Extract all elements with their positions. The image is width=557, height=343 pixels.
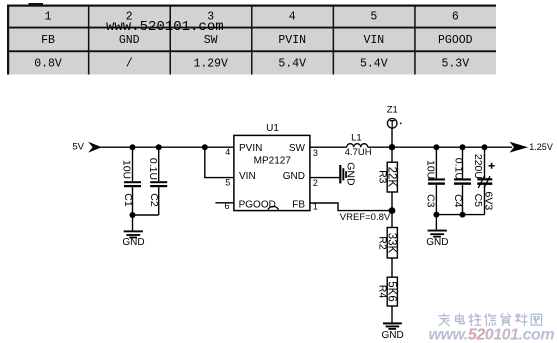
svg-text:220U: 220U bbox=[472, 154, 484, 179]
wire PGOOD stub (pin 6, floating) bbox=[215, 201, 234, 211]
svg-text:4: 4 bbox=[225, 147, 230, 157]
node 5V input port bbox=[72, 141, 101, 152]
svg-text:0.1U: 0.1U bbox=[147, 158, 159, 180]
node junction C1 on rail bbox=[130, 144, 136, 150]
ground GND under R4 bbox=[381, 322, 403, 341]
pin table bbox=[7, 5, 496, 75]
wire C1-C2 bottom link bbox=[133, 214, 159, 216]
svg-text:/: / bbox=[126, 58, 133, 71]
svg-text:PGOOD: PGOOD bbox=[239, 200, 276, 211]
svg-text:MP2127: MP2127 bbox=[254, 156, 292, 167]
inductor L1 4.7UH bbox=[345, 132, 372, 158]
svg-text:C2: C2 bbox=[148, 193, 160, 207]
capacitor C1 10U bbox=[121, 147, 141, 215]
wire input rail 5V to PVIN bbox=[96, 146, 234, 148]
svg-text:10U: 10U bbox=[425, 160, 437, 179]
svg-text:5: 5 bbox=[225, 177, 230, 187]
svg-text:GND: GND bbox=[122, 237, 144, 248]
node junction C3 on rail bbox=[433, 144, 439, 150]
svg-text:1.25V: 1.25V bbox=[529, 142, 553, 152]
svg-text:VIN: VIN bbox=[363, 34, 384, 47]
capacitor C3 10U bbox=[425, 147, 445, 214]
svg-text:0.8V: 0.8V bbox=[34, 58, 62, 71]
ground GND under C3 bbox=[426, 215, 448, 248]
node junction C1 bottom bbox=[130, 212, 136, 218]
svg-text:5V: 5V bbox=[72, 141, 84, 152]
svg-text:L1: L1 bbox=[351, 132, 362, 143]
wire GND pin 2 bbox=[310, 178, 339, 189]
wire SW pin 3 to L1 bbox=[310, 147, 347, 158]
svg-text:0.1U: 0.1U bbox=[452, 158, 464, 180]
svg-text:3: 3 bbox=[313, 148, 318, 158]
resistor R3 22K bbox=[377, 147, 398, 210]
wire C3-C4-C5 bottom link bbox=[436, 214, 484, 216]
node junction C4 bottom bbox=[460, 212, 466, 218]
svg-text:5: 5 bbox=[370, 11, 377, 24]
capacitor C2 0.1U bbox=[147, 147, 167, 215]
svg-text:2: 2 bbox=[313, 178, 318, 188]
node junction C2 on rail bbox=[156, 144, 162, 150]
svg-text:5K6: 5K6 bbox=[386, 281, 398, 301]
svg-text:FB: FB bbox=[41, 34, 55, 47]
resistor R4 5K6 bbox=[377, 277, 398, 322]
svg-text:GND: GND bbox=[345, 162, 357, 186]
watermark www.520101.com (bottom) bbox=[429, 326, 555, 343]
node junction C4 on rail bbox=[460, 144, 466, 150]
svg-text:GND: GND bbox=[426, 237, 448, 248]
svg-text:U1: U1 bbox=[266, 123, 279, 134]
svg-text:33K: 33K bbox=[386, 233, 398, 254]
svg-text:4: 4 bbox=[289, 11, 296, 24]
node Z1 test point bbox=[387, 105, 402, 148]
svg-text:1: 1 bbox=[313, 202, 318, 212]
svg-text:GND: GND bbox=[119, 34, 140, 47]
wire FB pin 1 to divider node bbox=[310, 202, 392, 212]
svg-text:SW: SW bbox=[204, 34, 218, 47]
ground GND under C1 bbox=[122, 215, 144, 248]
svg-text:C1: C1 bbox=[122, 193, 134, 207]
svg-text:VREF=0.8V: VREF=0.8V bbox=[340, 212, 391, 223]
svg-text:www.520101.com: www.520101.com bbox=[429, 326, 555, 343]
capacitor C5 220U 6V3 (electrolytic) bbox=[472, 147, 495, 214]
capacitor C4 0.1U bbox=[452, 147, 471, 214]
svg-text:22K: 22K bbox=[386, 167, 398, 188]
wire output rail bbox=[392, 146, 512, 148]
svg-text:VIN: VIN bbox=[239, 171, 256, 182]
svg-text:www.520101.com: www.520101.com bbox=[106, 19, 224, 35]
svg-text:10U: 10U bbox=[121, 160, 133, 179]
svg-text:C3: C3 bbox=[425, 194, 437, 208]
svg-text:5.3V: 5.3V bbox=[441, 58, 469, 71]
svg-text:PVIN: PVIN bbox=[239, 143, 262, 154]
svg-text:5.4V: 5.4V bbox=[360, 58, 388, 71]
node junction C3 bottom bbox=[433, 212, 439, 218]
resistor R2 33K bbox=[377, 211, 398, 278]
svg-text:PVIN: PVIN bbox=[278, 34, 306, 47]
node junction C5 on rail bbox=[482, 144, 488, 150]
svg-text:1: 1 bbox=[45, 11, 52, 24]
svg-text:GND: GND bbox=[381, 330, 403, 341]
svg-text:1.29V: 1.29V bbox=[193, 58, 228, 71]
svg-text:6V3: 6V3 bbox=[483, 192, 495, 211]
svg-text:PGOOD: PGOOD bbox=[438, 34, 473, 47]
node 1.25V output port bbox=[510, 142, 553, 153]
svg-text:Z1: Z1 bbox=[387, 105, 398, 116]
watermark 家电维修资料网 (bottom) bbox=[439, 314, 542, 326]
svg-text:C5: C5 bbox=[472, 194, 484, 208]
svg-text:5.4V: 5.4V bbox=[278, 58, 306, 71]
node junction FB divider bbox=[389, 207, 396, 214]
svg-text:FB: FB bbox=[292, 200, 305, 211]
wire VIN branch (pin 5) bbox=[205, 147, 234, 187]
node junction VIN branch on rail bbox=[202, 144, 208, 150]
wire L1 to output node bbox=[368, 146, 392, 148]
node junction SW/L1 output bbox=[389, 144, 395, 150]
op-amp U1 MP2127 regulator bbox=[234, 123, 310, 211]
svg-text:SW: SW bbox=[289, 143, 306, 154]
watermark www.520101.com (top) bbox=[29, 3, 224, 35]
svg-text:6: 6 bbox=[224, 201, 229, 211]
svg-text:4.7UH: 4.7UH bbox=[345, 147, 372, 158]
svg-text:C4: C4 bbox=[452, 194, 464, 208]
svg-text:6: 6 bbox=[452, 11, 459, 24]
ground at pin 2 (rotated) bbox=[339, 162, 356, 186]
svg-text:GND: GND bbox=[283, 171, 305, 182]
